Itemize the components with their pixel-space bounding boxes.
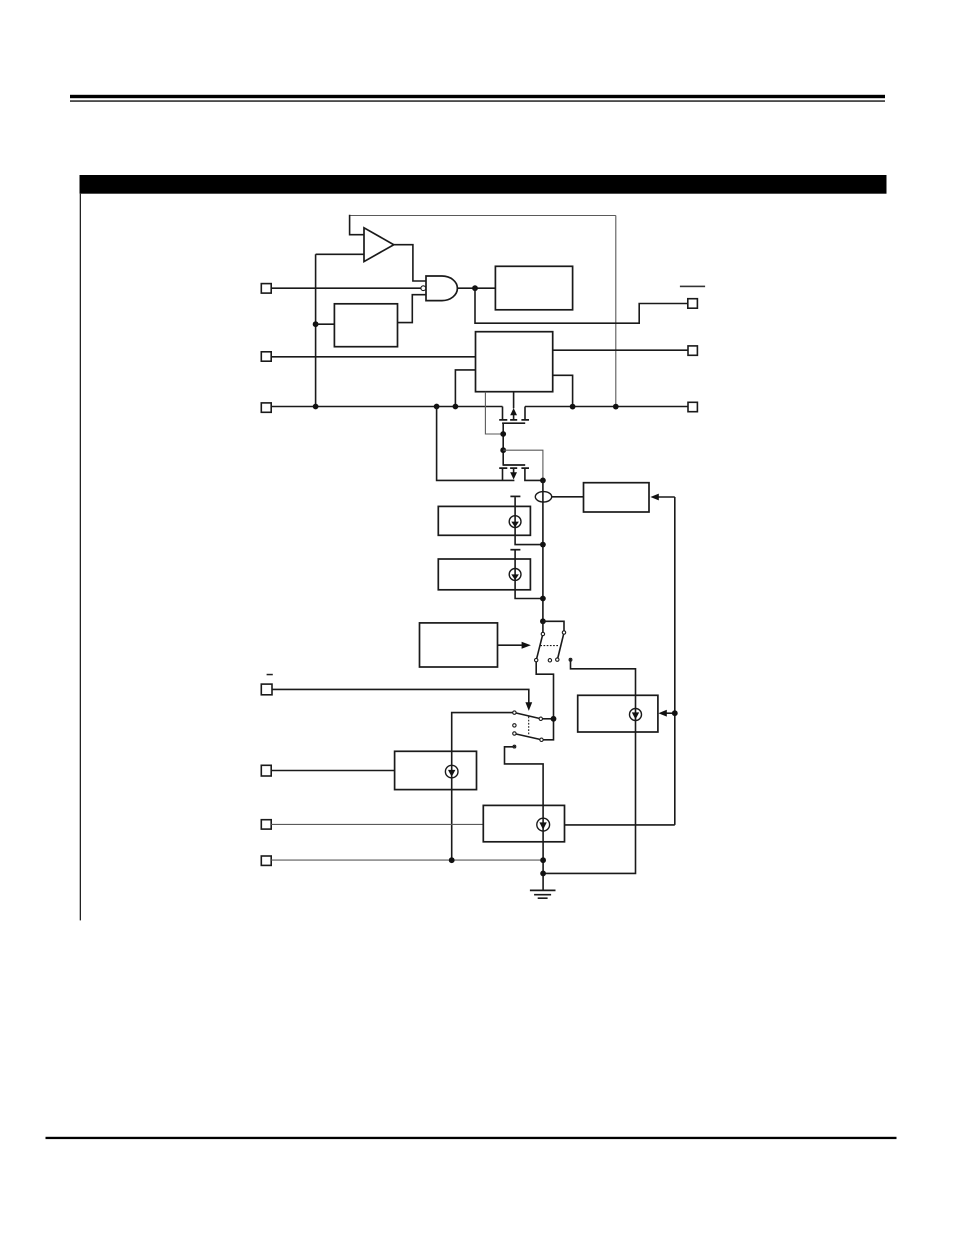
transistor M2 stubs xyxy=(503,468,543,480)
node gate b xyxy=(500,447,506,453)
box8 (right current source block) xyxy=(578,695,658,732)
wire rail to box2 input xyxy=(316,323,335,325)
node rail bottom xyxy=(313,404,319,410)
wire sw1 bottom-left down to sw2 xyxy=(536,662,553,740)
wire main horizontal from pin3 to M1 xyxy=(271,406,502,408)
transistor M2 gate bar xyxy=(503,464,526,466)
op-amp U1 buffer triangle xyxy=(364,228,394,262)
pin 4 overline xyxy=(267,674,273,676)
transistor M1 contact bars xyxy=(499,419,529,421)
switch SW1 contact top-right xyxy=(562,631,565,634)
box1 (upper right block) xyxy=(495,266,572,310)
switch SW2 arm end contact xyxy=(539,717,542,720)
pin R2 xyxy=(688,346,697,355)
figure left border xyxy=(80,194,81,921)
wire box10 output right to feedback xyxy=(565,824,675,826)
wire through box8 down to ground rail xyxy=(543,695,635,873)
pin R1 xyxy=(688,299,698,309)
box9 (current source block 3) xyxy=(395,751,477,789)
switch SW2 arm bottom xyxy=(516,734,540,739)
pin R3 xyxy=(688,402,697,411)
wire nand output down and right to output pin R1 xyxy=(475,288,688,323)
switch SW2 gang dashed xyxy=(528,717,530,736)
wire main horizontal from M1 to pin R3 xyxy=(525,406,688,408)
wire pin2 to box3 xyxy=(271,356,475,358)
arrow into box4 xyxy=(658,496,675,498)
wire feedback right vertical long xyxy=(674,497,676,825)
arrow switch2 actuator down xyxy=(525,702,532,711)
capacitor C2 bar xyxy=(510,549,520,551)
box5 (current source block 1) xyxy=(438,506,530,535)
arrow box7 to switch1 xyxy=(498,644,522,646)
wire sw1 left branch xyxy=(542,621,544,632)
switch SW1 arm right xyxy=(558,634,564,658)
switch SW2 throw contact bottom xyxy=(513,745,516,748)
wire feedback left drop to buffer input xyxy=(350,215,364,235)
node M2 drain xyxy=(540,478,546,484)
transistor M1 body wire from box3 xyxy=(513,392,515,409)
title black bar xyxy=(80,175,887,194)
box2 (lower left block) xyxy=(334,304,397,347)
node rail to box2 xyxy=(313,321,319,327)
node box3 lower output xyxy=(570,404,576,410)
node nand output junction xyxy=(457,287,495,289)
switch SW1 contact top-left xyxy=(541,632,544,635)
node feedback join xyxy=(613,404,619,410)
wire feedback right vertical xyxy=(615,216,617,407)
wire buffer output to gate top input xyxy=(394,245,426,281)
current source I1 xyxy=(509,516,521,528)
node box9 rail join xyxy=(449,857,455,863)
wire pin1 to gate bubble xyxy=(271,287,421,289)
wire box10 through down to ground xyxy=(542,805,544,890)
wire pin6 to box10 xyxy=(271,823,483,825)
pin 5 xyxy=(261,765,271,776)
node ground a xyxy=(540,857,546,863)
node ground b xyxy=(540,871,546,877)
switch SW1 gang dashed xyxy=(540,645,559,647)
wire capacitor C2 stem through I2 to box6 output xyxy=(515,550,543,598)
wire sw1 right branch xyxy=(543,621,564,630)
ground symbol xyxy=(530,890,556,898)
pin 4 xyxy=(261,684,272,695)
wire rail to buffer lower input xyxy=(316,253,364,255)
wire pin7 ground rail xyxy=(271,859,543,861)
wire pin4 to switch2 actuator xyxy=(272,689,529,702)
wire box3 output to pin R2 xyxy=(553,349,688,351)
pin 7 xyxy=(261,856,271,865)
wire box3 to gate node (gray) xyxy=(485,392,503,434)
wire pin5 to box9 xyxy=(271,770,394,772)
wire main node up into box3 second input xyxy=(455,370,475,407)
capacitor C1 bar xyxy=(510,495,520,497)
transistor M2 body arrow down xyxy=(513,468,515,473)
switch SW1 contact bottom-left xyxy=(535,658,538,661)
switch SW1 contact bottom-right arm end xyxy=(556,658,559,661)
switch SW1 top node xyxy=(540,618,546,624)
wire left source path xyxy=(437,407,515,481)
wire sw2 throw to box10 xyxy=(505,747,544,806)
transistor M1 body arrow up xyxy=(513,414,515,419)
wire sw2 left to box9 rail xyxy=(452,713,513,861)
node box5 join xyxy=(540,542,546,548)
transistor M2 contact bars xyxy=(499,467,529,469)
wire sw1 right throw to box8 xyxy=(571,661,636,695)
wire capacitor C1 stem through I1 to box5 output xyxy=(515,497,543,544)
wire main vertical to switch1 xyxy=(542,480,544,621)
node box3 branch xyxy=(453,404,459,410)
pin 2 xyxy=(261,352,271,361)
arrow into box8 from feedback xyxy=(666,712,675,714)
switch SW2 contact bottom-left xyxy=(513,732,516,735)
box10 (bottom current source block) xyxy=(483,805,564,841)
node left branch xyxy=(434,404,440,410)
node box6 join xyxy=(540,596,546,602)
pin 1 xyxy=(261,284,271,294)
current source I2 xyxy=(509,569,521,581)
nand gate input bubble xyxy=(421,286,426,291)
ellipse node marker xyxy=(535,492,551,502)
switch SW1 throw contact right xyxy=(569,658,572,661)
wire left rail vertical xyxy=(315,254,317,406)
wire drain path to main vertical xyxy=(503,450,543,480)
switch SW1 contact middle open xyxy=(548,659,551,662)
footer rule xyxy=(46,1137,897,1139)
pin 6 xyxy=(261,820,271,829)
wire top feedback horizontal xyxy=(350,215,616,217)
nand gate U2 body xyxy=(426,276,457,301)
node sw2 join xyxy=(551,716,557,722)
overline mark above pin R1 xyxy=(680,286,705,288)
header double rule xyxy=(70,95,885,98)
wire ellipse to box4 xyxy=(551,496,584,498)
node feedback branch xyxy=(672,710,678,716)
current source I5 xyxy=(445,765,458,778)
switch SW1 arm left xyxy=(537,636,543,659)
box3 (large center block) xyxy=(476,332,553,392)
wire box3 lower output to main wire xyxy=(553,375,573,406)
wire sw2 arm to feedback node xyxy=(543,718,554,720)
box7 (left block) xyxy=(420,623,498,667)
wire gate vertical M1-M2 xyxy=(502,423,504,465)
switch SW2 contact top-left xyxy=(513,711,516,714)
pin 3 xyxy=(261,403,271,412)
node gate a xyxy=(500,431,506,437)
transistor M1 stubs xyxy=(503,407,526,420)
switch SW2 contact middle open xyxy=(513,724,516,727)
wire box2 output to gate bottom input xyxy=(398,295,427,323)
current source I3 xyxy=(630,709,642,721)
switch SW2 bottom arm end contact xyxy=(540,738,543,741)
transistor M1 gate bar xyxy=(502,422,525,424)
current source I4 xyxy=(537,818,550,831)
switch SW2 arm top xyxy=(516,713,539,718)
box4 (right small block) xyxy=(584,483,650,512)
box6 (current source block 2) xyxy=(438,559,530,590)
